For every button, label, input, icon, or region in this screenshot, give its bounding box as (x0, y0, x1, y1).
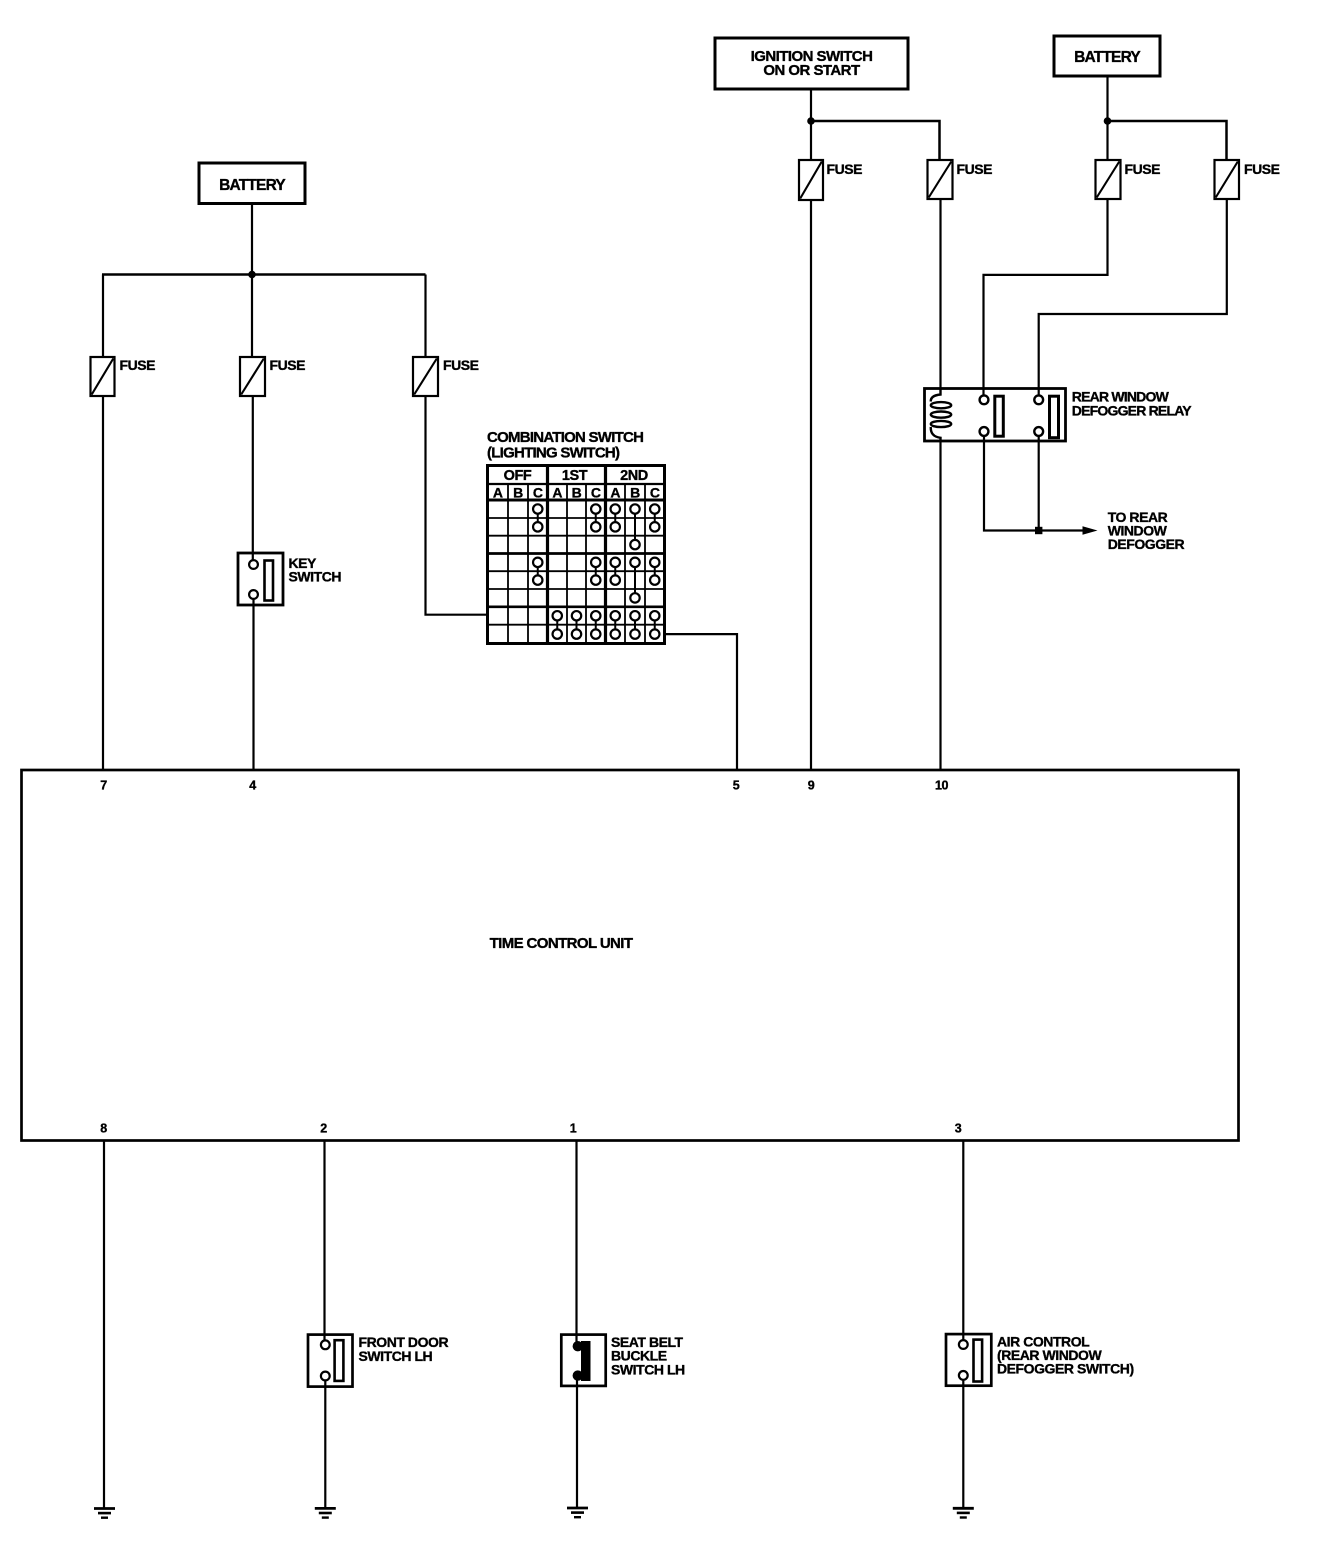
wire fuse F1 to TCU pin 7 (102, 396, 104, 771)
svg-text:A: A (552, 485, 562, 501)
wire battery B2 to junction (1106, 76, 1108, 121)
svg-text:7: 7 (100, 779, 107, 793)
wire relay bottom-right pin to junction (1038, 436, 1040, 531)
ground G1 (94, 1509, 115, 1518)
battery B2 (1054, 36, 1160, 76)
wire combination switch to TCU pin 5 (665, 634, 738, 771)
svg-text:1: 1 (570, 1122, 577, 1136)
rear window defogger relay box (925, 389, 1066, 442)
wire fuse F3 to combination switch (426, 396, 488, 615)
svg-text:B: B (513, 485, 523, 501)
junction square defogger (1035, 527, 1042, 534)
relay contact bar right (1050, 396, 1059, 438)
wire relay coil to TCU pin 10 (939, 441, 941, 771)
fuse F5 (928, 160, 993, 199)
relay pin top-right (1034, 395, 1043, 404)
ground G3 (567, 1508, 588, 1517)
relay label (1072, 389, 1192, 419)
junction node ignition (807, 117, 815, 125)
fuse F6 (1096, 160, 1161, 199)
wire fuse F7 to relay output contact (1039, 199, 1227, 396)
wire fuse F6 to relay coil-side contact (984, 199, 1108, 396)
ignition switch box (715, 38, 908, 89)
svg-text:FUSE: FUSE (827, 161, 863, 177)
svg-text:FUSE: FUSE (443, 357, 479, 373)
svg-text:BATTERY: BATTERY (219, 177, 286, 194)
wire seat belt switch to ground (576, 1376, 578, 1508)
svg-text:TIME CONTROL UNIT: TIME CONTROL UNIT (490, 935, 633, 952)
svg-text:FUSE: FUSE (1244, 161, 1280, 177)
svg-text:OFF: OFF (504, 468, 532, 484)
wire fuse F5 to relay coil (939, 198, 941, 390)
battery B1 (199, 163, 305, 204)
combination switch label (487, 429, 643, 462)
svg-text:1ST: 1ST (562, 468, 588, 484)
svg-text:COMBINATION SWITCH: COMBINATION SWITCH (487, 429, 643, 446)
junction node battery B2 (1104, 117, 1112, 125)
time control unit box (22, 770, 1239, 1141)
wire TCU pin 1 to seat belt switch (575, 1140, 577, 1346)
svg-text:C: C (591, 485, 601, 501)
svg-text:2: 2 (320, 1122, 327, 1136)
svg-text:(LIGHTING SWITCH): (LIGHTING SWITCH) (487, 445, 620, 462)
svg-text:9: 9 (808, 779, 815, 793)
wire fuse F4 to TCU pin 9 (810, 199, 812, 771)
svg-text:2ND: 2ND (620, 468, 648, 484)
svg-text:SWITCH LH: SWITCH LH (611, 1362, 685, 1378)
svg-text:5: 5 (733, 779, 740, 793)
fuse F2 (240, 357, 305, 396)
wire bus right drop to fuse F3 (424, 275, 426, 359)
key switch (238, 553, 341, 605)
seat belt buckle switch LH (561, 1334, 685, 1386)
wire ignition switch to junction (810, 89, 812, 121)
wire air control switch to ground (962, 1380, 964, 1508)
combination switch (lighting switch) contact table (488, 466, 665, 644)
relay pin bottom-left (980, 427, 989, 436)
fuse F7 (1215, 160, 1280, 199)
svg-text:FUSE: FUSE (120, 357, 156, 373)
wire junction to fuse F6 (1106, 121, 1108, 161)
svg-text:10: 10 (935, 779, 949, 793)
svg-text:FUSE: FUSE (270, 357, 306, 373)
svg-text:BATTERY: BATTERY (1074, 49, 1141, 66)
ground G4 (953, 1508, 974, 1517)
to rear window defogger label (1108, 509, 1185, 552)
wire junction to fuse F7 (1108, 121, 1227, 161)
arrow to rear window defogger (1083, 526, 1098, 535)
wire front door switch to ground (324, 1380, 326, 1508)
air control (rear window defogger switch) (946, 1334, 1134, 1386)
wire relay bottom-left pin to defogger arrow (984, 436, 1088, 531)
svg-text:FUSE: FUSE (957, 161, 993, 177)
wire TCU pin 3 to air control switch (962, 1140, 964, 1341)
svg-text:3: 3 (955, 1122, 962, 1136)
wire TCU pin 8 to ground (103, 1140, 105, 1508)
relay pin bottom-right (1034, 427, 1043, 436)
svg-text:FUSE: FUSE (1125, 161, 1161, 177)
svg-text:8: 8 (100, 1122, 107, 1136)
wire key switch to TCU pin 4 (252, 599, 254, 771)
fuse F4 (799, 160, 862, 200)
svg-text:C: C (650, 485, 660, 501)
relay contact bar left (995, 396, 1004, 436)
svg-text:DEFOGGER SWITCH): DEFOGGER SWITCH) (997, 1361, 1134, 1377)
bus wire horizontal (102, 273, 426, 276)
svg-text:ON OR START: ON OR START (763, 62, 860, 79)
wire battery B1 to bus junction (251, 204, 253, 275)
relay coil (931, 389, 951, 442)
svg-text:SWITCH LH: SWITCH LH (359, 1348, 433, 1364)
fuse F1 (91, 357, 156, 396)
wire bus mid drop to fuse F2 (251, 275, 253, 359)
wire bus left drop to fuse F1 (102, 275, 104, 359)
svg-text:SWITCH: SWITCH (289, 569, 342, 585)
wire TCU pin 2 to front door switch (323, 1140, 325, 1341)
ground G2 (315, 1508, 336, 1517)
fuse F3 (413, 357, 479, 396)
wire junction to fuse F4 (810, 121, 812, 161)
relay pin top-left (980, 395, 989, 404)
svg-text:4: 4 (249, 779, 256, 793)
svg-text:DEFOGGER: DEFOGGER (1108, 536, 1185, 552)
wire fuse F2 to key switch (252, 396, 254, 561)
front door switch LH (308, 1334, 448, 1387)
svg-text:A: A (493, 485, 503, 501)
svg-text:C: C (533, 485, 543, 501)
junction node bus (248, 271, 256, 279)
svg-text:B: B (630, 485, 640, 501)
svg-text:DEFOGGER RELAY: DEFOGGER RELAY (1072, 402, 1192, 418)
wire junction to fuse F5 (811, 121, 940, 161)
svg-text:A: A (610, 485, 620, 501)
svg-text:B: B (572, 485, 582, 501)
